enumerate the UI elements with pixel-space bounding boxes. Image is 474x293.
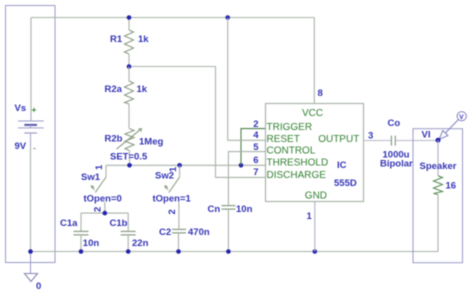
node dot reset rail <box>225 15 230 20</box>
svg-text:22n: 22n <box>132 238 149 249</box>
wire Sw1 bottom to C1a/C1b <box>81 212 128 214</box>
node dot C2 bottom <box>176 249 181 254</box>
svg-text:CONTROL: CONTROL <box>267 145 316 156</box>
wire bottom ground rail <box>30 251 438 253</box>
wire top rail <box>31 17 314 19</box>
svg-text:10n: 10n <box>236 204 253 215</box>
svg-text:Vs: Vs <box>15 103 27 114</box>
wire battery bottom <box>30 146 32 252</box>
switch Sw1 <box>91 165 106 213</box>
svg-text:tOpen=0: tOpen=0 <box>84 194 122 205</box>
svg-text:Bipolar: Bipolar <box>380 159 413 170</box>
svg-text:V: V <box>459 114 464 121</box>
svg-text:DISCHARGE: DISCHARGE <box>267 170 327 181</box>
svg-text:6: 6 <box>253 155 258 166</box>
svg-text:VCC: VCC <box>302 108 323 119</box>
svg-text:tOpen=1: tOpen=1 <box>153 194 192 205</box>
battery Vs <box>18 121 44 133</box>
node dot C1b bottom <box>126 249 131 254</box>
svg-text:4: 4 <box>253 130 259 141</box>
svg-text:OUTPUT: OUTPUT <box>318 134 359 145</box>
svg-text:Co: Co <box>388 118 401 129</box>
svg-text:9V: 9V <box>15 141 27 152</box>
svg-text:Sw1: Sw1 <box>81 172 101 183</box>
svg-text:Speaker: Speaker <box>420 161 457 172</box>
node dot R2b bottom <box>127 163 132 168</box>
wire reset from top rail <box>228 18 266 141</box>
wire GND pin1 <box>314 202 316 252</box>
svg-text:RESET: RESET <box>267 134 300 145</box>
capacitor Cn <box>222 206 236 251</box>
wire output pin3 to Co <box>364 140 392 142</box>
svg-text:10n: 10n <box>83 238 100 249</box>
svg-text:16: 16 <box>446 181 457 192</box>
node dot C1a bottom <box>79 249 84 254</box>
svg-text:IC: IC <box>337 160 347 171</box>
resistor R2a <box>125 67 134 129</box>
svg-text:C1a: C1a <box>60 218 78 229</box>
speaker (16 ohm) <box>434 140 443 251</box>
node dot Sw1 bottom <box>103 211 108 216</box>
svg-text:Cn: Cn <box>208 204 221 215</box>
capacitor C1b <box>121 213 136 251</box>
svg-text:1: 1 <box>307 211 313 222</box>
op-amp U1 IC 555D box <box>266 104 364 202</box>
svg-text:C2: C2 <box>159 227 171 238</box>
wire VCC pin8 <box>313 18 315 104</box>
svg-text:7: 7 <box>253 167 258 178</box>
svg-text:0: 0 <box>36 281 41 292</box>
selection box around Vs <box>6 6 56 263</box>
svg-text:+: + <box>32 105 37 115</box>
node dot R1 top <box>127 15 132 20</box>
node dot trigger/threshold junction <box>239 163 244 168</box>
svg-text:C1b: C1b <box>110 218 128 229</box>
svg-text:1k: 1k <box>138 34 149 45</box>
svg-text:THRESHOLD: THRESHOLD <box>267 158 329 169</box>
wire trigger rail <box>106 164 266 166</box>
svg-text:2: 2 <box>253 119 258 130</box>
wire R1 bottom to discharge <box>129 67 266 178</box>
node dot speaker top <box>436 138 441 143</box>
svg-text:-: - <box>33 143 36 153</box>
svg-text:2: 2 <box>167 209 178 214</box>
capacitor Co <box>391 136 395 146</box>
switch Sw2 <box>165 165 180 213</box>
node dot gnd rail pin1 <box>313 249 318 254</box>
battery bottom pin <box>30 133 32 146</box>
svg-text:R2b: R2b <box>105 134 123 145</box>
svg-text:8: 8 <box>318 88 323 99</box>
node dot R1/R2a junction <box>127 64 132 69</box>
svg-text:470n: 470n <box>188 227 210 238</box>
svg-text:1: 1 <box>94 164 105 170</box>
svg-text:5: 5 <box>253 142 259 153</box>
svg-text:1: 1 <box>168 166 179 172</box>
svg-text:1k: 1k <box>137 84 148 95</box>
svg-text:3: 3 <box>368 131 373 142</box>
wire pin2 trigger <box>241 129 266 166</box>
ground <box>25 252 38 282</box>
svg-text:R1: R1 <box>110 34 123 45</box>
svg-text:GND: GND <box>305 190 327 201</box>
capacitor C1a <box>74 213 89 251</box>
wire Co to speaker <box>395 140 438 142</box>
selection box around Speaker/VM <box>413 129 463 263</box>
svg-text:2: 2 <box>93 207 104 212</box>
svg-text:1Meg: 1Meg <box>139 137 163 148</box>
capacitor C2 <box>172 214 186 252</box>
voltmeter VM <box>439 112 466 140</box>
svg-text:TRIGGER: TRIGGER <box>267 122 313 133</box>
svg-text:R2a: R2a <box>105 84 123 95</box>
wire battery top <box>30 18 32 113</box>
node dot Sw2 top <box>177 163 182 168</box>
svg-text:SET=0.5: SET=0.5 <box>110 152 148 163</box>
wire pin5 control to Cn <box>228 152 265 206</box>
node dot gnd rail battery <box>28 249 33 254</box>
battery top pin <box>30 112 32 121</box>
node dot Cn bottom <box>226 249 231 254</box>
resistor R1 <box>125 18 134 67</box>
potentiometer R2b <box>117 129 142 166</box>
svg-text:555D: 555D <box>334 178 357 189</box>
svg-text:VI: VI <box>422 130 431 141</box>
